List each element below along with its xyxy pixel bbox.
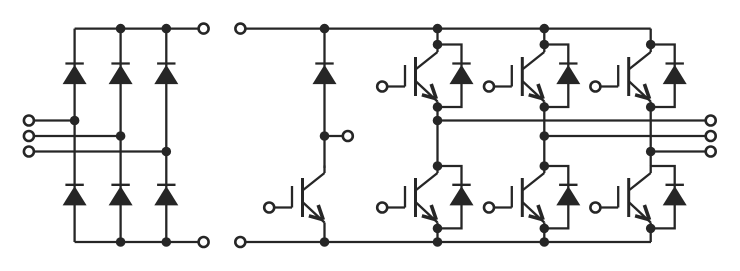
terminal AC L1 [24,116,34,126]
wire inverter DC- rail [240,241,651,243]
junction leg2 emitter join [540,102,550,112]
junction top rail leg3 [162,24,172,34]
wire rectifier bottom rail [75,241,204,243]
junction leg1 lower join [433,224,443,234]
junction chopper bottom rail [320,237,330,247]
wire leg2 bottom feed [543,228,545,242]
diode D4 [109,185,133,206]
junction leg2 DC- rail [540,237,550,247]
diode DF5 freewheel top leg3 [663,64,687,85]
wire phase W line [651,150,711,152]
terminal AC L2 [24,131,34,141]
transistor Q4 bottom IGBT leg2 [494,166,544,229]
junction chopper top rail [320,24,330,34]
junction leg2 DC+ rail [540,24,550,34]
terminal gate Q6 [590,203,600,213]
terminal gate Q3 [484,82,494,92]
terminal phase V [706,131,716,141]
wire leg3 top feed [650,29,652,45]
terminal phase W [706,147,716,157]
wire AC input L2 [29,135,121,137]
wire rectifier leg 2 [119,29,121,242]
LEG 3 [651,29,711,242]
junction leg1 phase tap [433,116,443,126]
wire AC input L1 [29,119,75,121]
wire rectifier leg 1 [73,29,75,242]
junction leg1 collector split [433,40,443,50]
terminal inverter DC- input [235,237,245,247]
transistor Q1 top IGBT leg1 [388,45,438,108]
wire leg1 middle [436,107,438,166]
terminal AC L3 [24,147,34,157]
transistor Q7 chopper IGBT [275,166,325,229]
wire leg2 top diode branch [544,45,568,108]
transistor Q2 bottom IGBT leg1 [388,166,438,229]
transistor Q5 top IGBT leg3 [601,45,651,108]
LEG 1 [438,29,711,242]
terminal brake resistor output [343,131,353,141]
wire chopper branch upper [323,29,325,136]
diode DF2 freewheel bottom leg1 [450,185,474,206]
junction leg2 phase tap [540,131,550,141]
junction chopper node [320,131,330,141]
transistor Q6 bottom IGBT leg3 [601,166,651,229]
wire chopper output stub [325,135,348,137]
wire rectifier leg 3 [165,29,167,242]
wire leg1 top diode branch [438,45,462,108]
junction leg3 collector split [646,40,656,50]
junction bottom rail leg2 [116,237,126,247]
terminal rectifier DC- output [199,237,209,247]
terminal inverter DC+ input [235,24,245,34]
junction L3 leg3 [162,147,172,157]
junction L1 leg1 [70,116,80,126]
wire chopper emitter [323,228,325,242]
junction leg2 lower split [540,161,550,171]
junction leg3 phase tap [646,147,656,157]
junction L2 leg2 [116,131,126,141]
wire leg1 top feed [436,29,438,45]
wire leg3 top diode branch [651,45,675,108]
terminal gate Q1 [377,82,387,92]
transistor Q3 top IGBT leg2 [494,45,544,108]
diode D2 [63,185,87,206]
junction leg1 lower split [433,161,443,171]
diode DF4 freewheel bottom leg2 [556,185,580,206]
junction leg2 collector split [540,40,550,50]
junction leg3 lower join [646,224,656,234]
junction bottom rail leg3 [162,237,172,247]
terminal rectifier DC+ output [199,24,209,34]
wire chopper collector [323,136,325,168]
junction leg1 emitter join [433,102,443,112]
junction top rail leg2 [116,24,126,34]
terminal phase U [706,116,716,126]
wire leg2 bottom diode branch [544,166,568,228]
wire leg2 middle [543,107,545,166]
wire leg1 bottom feed [436,228,438,242]
wire rectifier top rail [75,27,204,29]
diode DF1 freewheel top leg1 [450,64,474,85]
diode D3 [109,64,133,85]
terminal chopper gate [264,203,274,213]
diode D5 [154,64,178,85]
junction leg3 emitter join [646,102,656,112]
wire leg2 top feed [543,29,545,45]
wire leg3 bottom diode branch [651,166,675,228]
wire leg3 bottom feed [650,228,652,242]
terminal gate Q2 [377,203,387,213]
wire phase U line [438,119,711,121]
wire inverter DC+ rail [240,27,650,29]
diode DF3 freewheel top leg2 [556,64,580,85]
junction leg1 DC+ rail [433,24,443,34]
wire AC input L3 [29,150,166,152]
diode DF6 freewheel bottom leg3 [663,185,687,206]
junction leg1 DC- rail [433,237,443,247]
terminal gate Q5 [590,82,600,92]
wire leg3 middle [650,107,652,166]
terminal gate Q4 [484,203,494,213]
diode D6 [154,185,178,206]
diode D7 brake [313,64,337,85]
LEG 2 [544,29,710,242]
diode D1 [63,64,87,85]
junction leg2 lower join [540,224,550,234]
wire leg1 bottom diode branch [438,166,462,228]
wire phase V line [544,135,710,137]
